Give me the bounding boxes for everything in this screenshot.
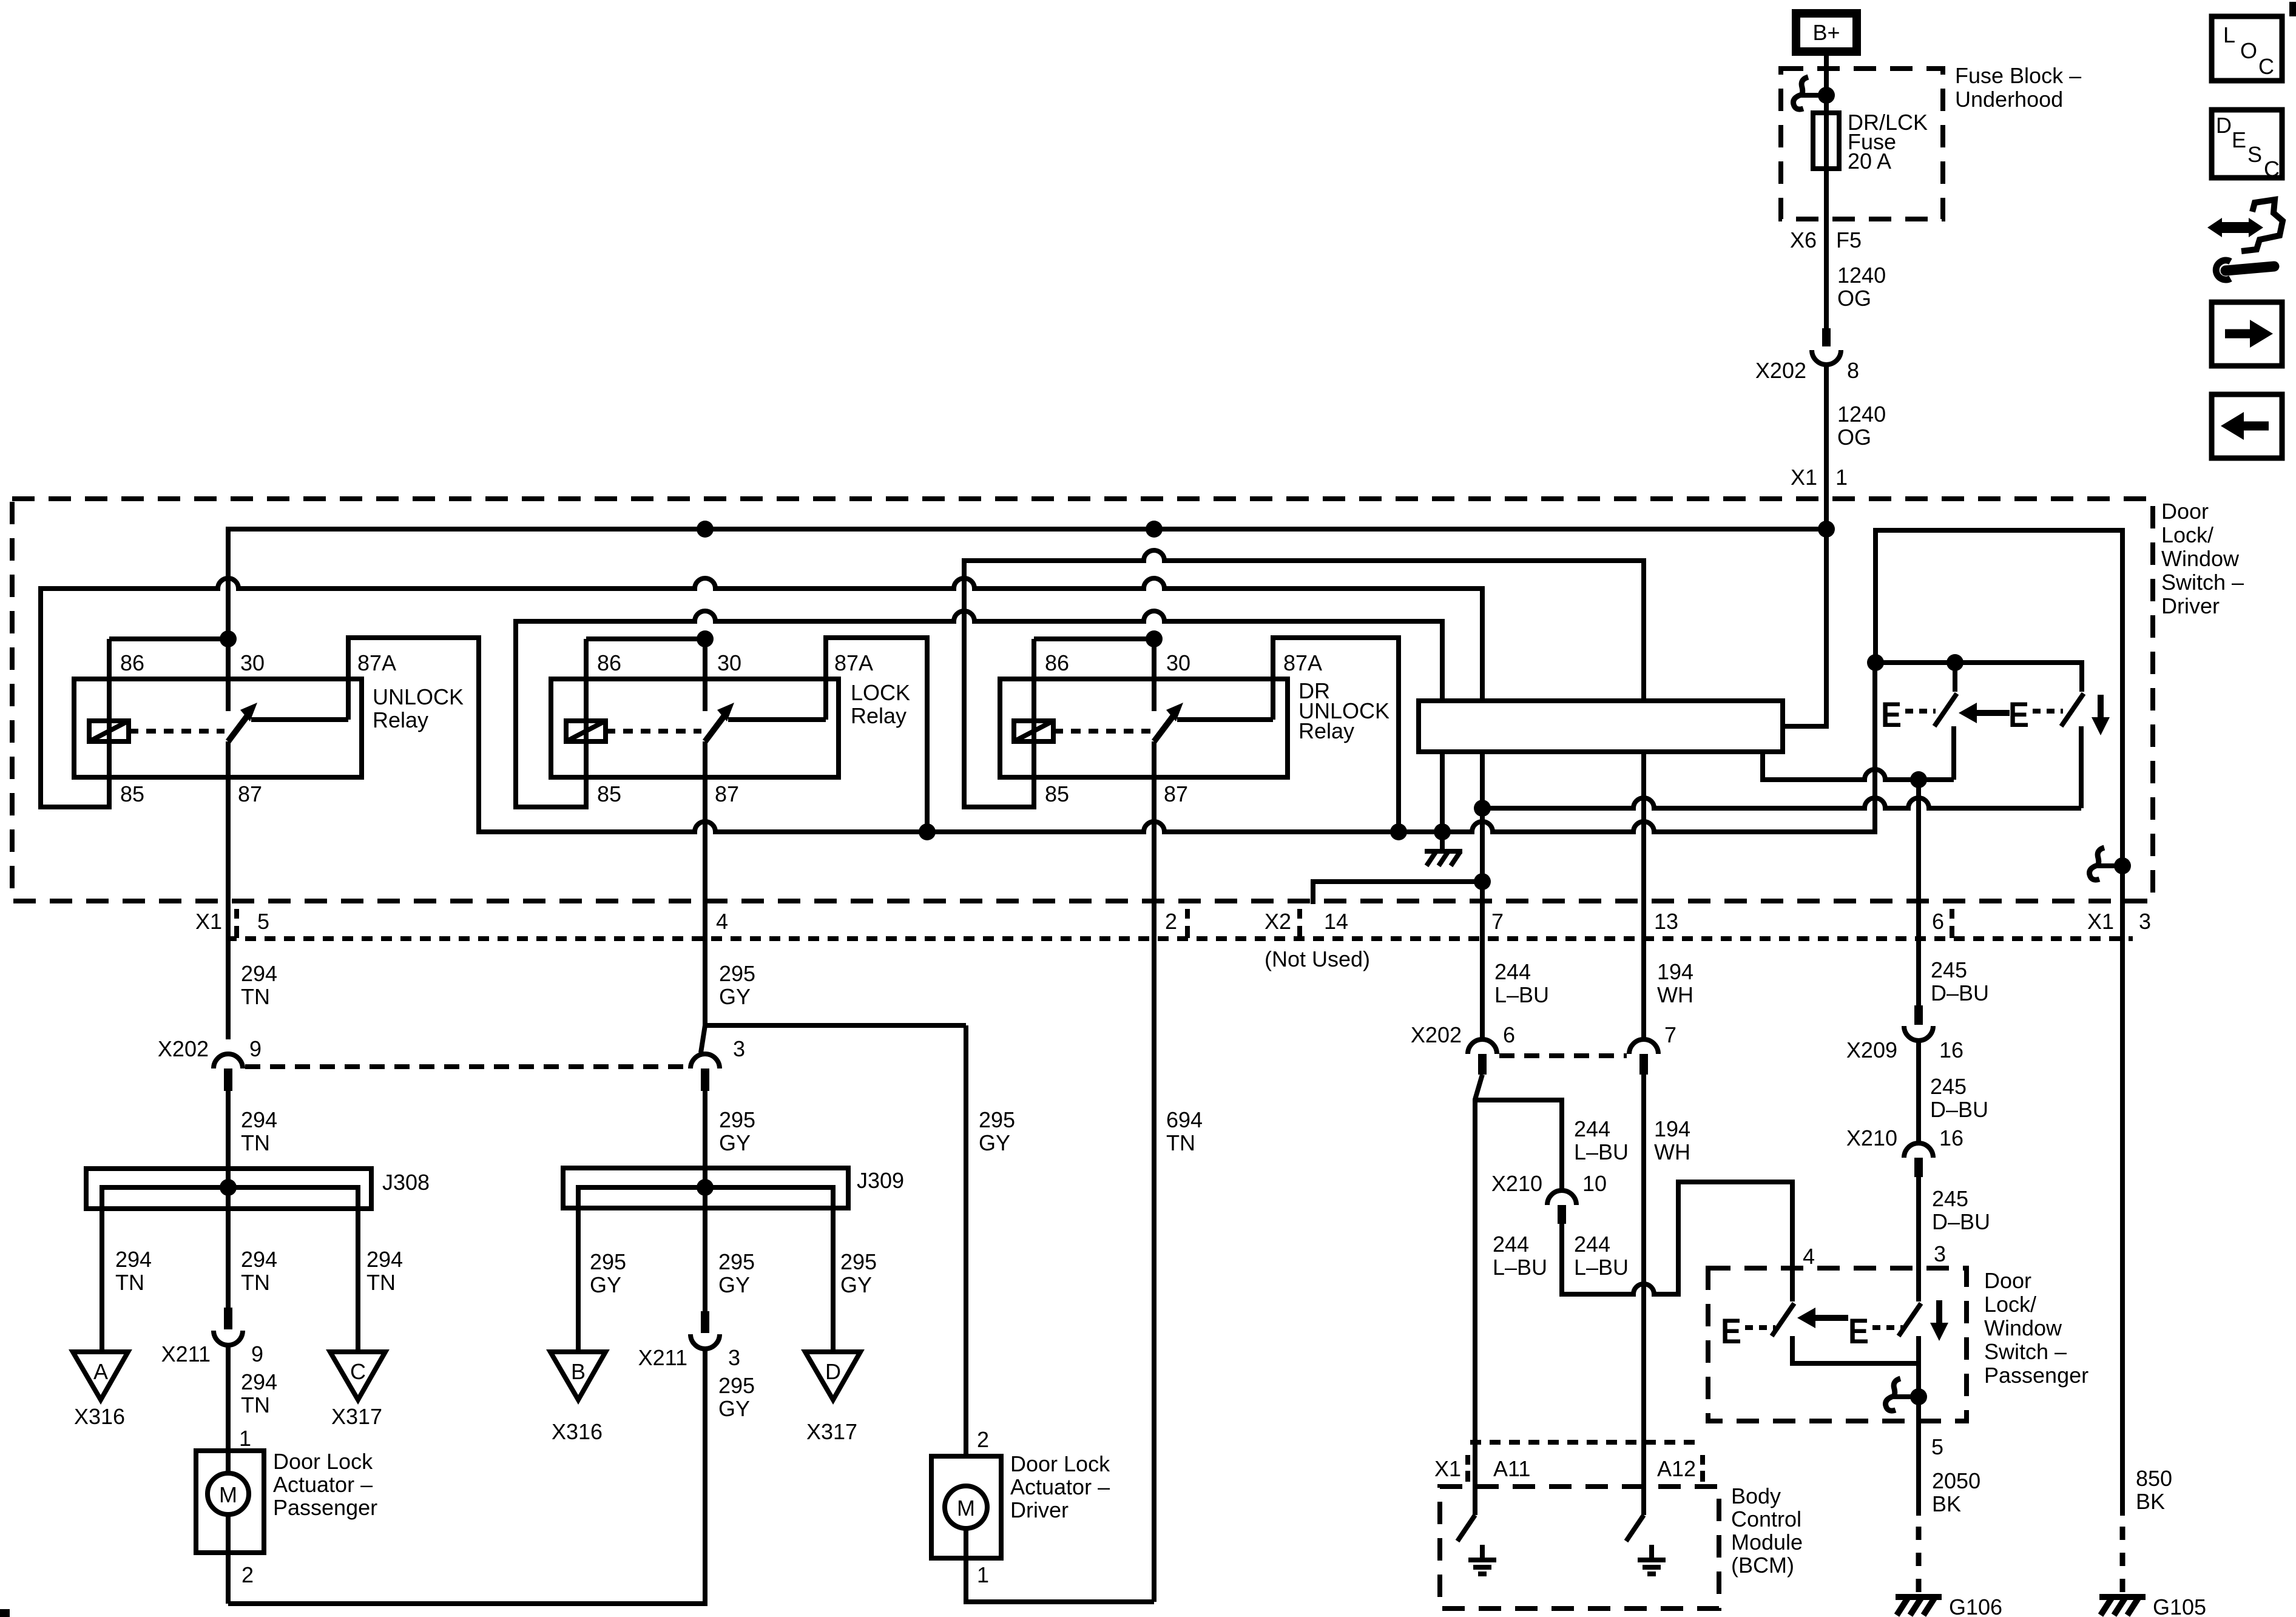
label DR/LCK Fuse 20 A <box>1848 110 1928 174</box>
connector X202 pin 8 <box>1812 328 1841 365</box>
svg-text:Lock/: Lock/ <box>2161 522 2213 547</box>
svg-text:Relay: Relay <box>851 703 907 728</box>
svg-text:850: 850 <box>2136 1466 2172 1491</box>
label 850 BK <box>2136 1466 2172 1514</box>
icon DESC box <box>2212 110 2282 181</box>
svg-text:C: C <box>2258 54 2274 79</box>
wire block port pin13 column upper <box>1641 752 1646 1039</box>
svg-text:X1: X1 <box>195 909 222 934</box>
svg-text:14: 14 <box>1324 909 1348 934</box>
relay2 coil <box>566 721 606 741</box>
label fuse block underhood <box>1955 63 2081 112</box>
svg-text:295: 295 <box>718 1249 755 1274</box>
door lock/window switch driver dashed box <box>12 499 2153 901</box>
relay2 bracket 86-30 <box>586 636 705 641</box>
label X202 6 <box>1411 1022 1515 1047</box>
svg-text:C: C <box>2264 157 2280 181</box>
relay2 box <box>551 679 839 777</box>
svg-text:L: L <box>2223 22 2235 47</box>
svg-text:D: D <box>2216 113 2232 138</box>
label X209 16 <box>1846 1038 1963 1062</box>
svg-text:BK: BK <box>2136 1489 2165 1514</box>
svg-text:4: 4 <box>716 909 728 934</box>
label 295 GY pin4 <box>719 961 755 1009</box>
svg-text:194: 194 <box>1654 1116 1690 1141</box>
svg-text:Lock/: Lock/ <box>1984 1292 2036 1317</box>
svg-text:9: 9 <box>249 1036 262 1061</box>
relay2 87 contact wire <box>728 717 826 722</box>
svg-text:E: E <box>1848 1312 1869 1351</box>
svg-text:Door: Door <box>1984 1268 2031 1293</box>
svg-text:1: 1 <box>239 1426 251 1451</box>
svg-text:Switch –: Switch – <box>1984 1339 2067 1364</box>
driver lock switch blade left <box>1953 663 1957 692</box>
relay1 coil link dashes <box>129 729 225 734</box>
svg-text:G106: G106 <box>1949 1595 2002 1617</box>
battery terminal B+ <box>1796 13 1857 52</box>
svg-text:E: E <box>2008 695 2029 735</box>
svg-text:Passenger: Passenger <box>273 1495 377 1520</box>
svg-text:244: 244 <box>1494 959 1531 984</box>
svg-text:O: O <box>2240 38 2257 63</box>
svg-text:30: 30 <box>1166 650 1190 675</box>
svg-text:E: E <box>1881 695 1902 735</box>
triangle connector B <box>550 1352 606 1400</box>
label 244 L-BU branch upper <box>1574 1116 1629 1164</box>
svg-text:WH: WH <box>1657 982 1693 1007</box>
svg-text:9: 9 <box>251 1342 263 1366</box>
labels X1 A11 A12 <box>1434 1456 1696 1481</box>
svg-text:E: E <box>2232 127 2246 152</box>
svg-text:F5: F5 <box>1836 228 1862 252</box>
relay DR UNLOCK Relay (relay 3) <box>1000 630 1389 806</box>
wire 294 TN to J308 <box>226 1091 231 1308</box>
svg-text:D–BU: D–BU <box>1932 1209 1990 1234</box>
relay LOCK Relay (relay 2) <box>551 630 910 806</box>
svg-text:UNLOCK: UNLOCK <box>373 684 464 709</box>
wire relay3 87A drop <box>1273 638 1399 832</box>
driver lock switch block rectangle <box>1419 701 1783 752</box>
svg-text:X317: X317 <box>806 1419 857 1444</box>
BCM ground A11 <box>1468 1545 1496 1574</box>
fuse block underhood dashed box <box>1781 69 1943 219</box>
svg-text:TN: TN <box>241 1393 270 1417</box>
svg-text:Door Lock: Door Lock <box>273 1449 373 1474</box>
wire X210-10 down and over to passenger pin4 <box>1562 1182 1792 1301</box>
svg-text:294: 294 <box>241 1369 277 1394</box>
svg-text:GY: GY <box>719 1130 751 1155</box>
splice J308 <box>86 1169 371 1352</box>
svg-text:3: 3 <box>733 1036 745 1061</box>
svg-text:10: 10 <box>1582 1171 1607 1196</box>
node driver switch left <box>1867 654 1884 671</box>
svg-text:4: 4 <box>1803 1244 1815 1269</box>
svg-text:A: A <box>93 1359 108 1384</box>
wire 244 L-BU jog down to BCM A11 <box>1475 1075 1482 1515</box>
relay3 87 contact wire <box>1177 717 1273 722</box>
pin bracket X2-14 <box>1297 909 1302 938</box>
label door lock/window switch driver <box>2161 499 2244 618</box>
svg-text:TN: TN <box>366 1270 396 1295</box>
label 1240 OG lower <box>1837 402 1886 450</box>
svg-text:X209: X209 <box>1846 1038 1897 1062</box>
driver unlock switch blade right <box>2061 694 2084 726</box>
label 694 TN <box>1166 1107 1203 1155</box>
relay3 box <box>1000 679 1288 777</box>
wire driver switch top rail <box>1876 663 2082 692</box>
svg-text:87: 87 <box>715 781 739 806</box>
driver unlock switch right terminal <box>2079 726 2084 808</box>
svg-text:295: 295 <box>719 1107 755 1132</box>
node 87A bus ground tap <box>1434 823 1451 840</box>
clamp symbol at fuse block feed <box>1794 77 1835 109</box>
label 245 D-BU lower <box>1932 1186 1990 1234</box>
svg-text:87: 87 <box>238 781 262 806</box>
svg-text:X211: X211 <box>161 1342 211 1366</box>
body control module dashed box <box>1440 1487 1719 1609</box>
passenger left terminal <box>1792 1336 1919 1363</box>
passenger switch down arrow <box>1930 1300 1948 1341</box>
triangle connector A <box>73 1352 128 1400</box>
svg-text:85: 85 <box>120 781 144 806</box>
connector X202 pin 3 <box>690 1025 720 1091</box>
svg-text:3: 3 <box>1934 1241 1946 1266</box>
relay2 coil link dashes <box>606 729 701 734</box>
label X6 F5 <box>1790 228 1862 252</box>
svg-text:GY: GY <box>718 1272 750 1297</box>
svg-text:Door: Door <box>2161 499 2209 524</box>
label X202 9 <box>158 1036 262 1061</box>
svg-text:GY: GY <box>718 1396 750 1421</box>
relay3 bracket 86-30 <box>1034 636 1154 641</box>
ground G105 <box>2099 1597 2146 1615</box>
label door lock actuator driver <box>1010 1451 1110 1522</box>
svg-text:1240: 1240 <box>1837 263 1886 288</box>
relay1 86 leg <box>107 639 112 741</box>
relay3 switch arm <box>1154 712 1176 741</box>
wire 2050 BK dashed drop <box>1916 1527 1922 1597</box>
wire relay1 87A bus to switch <box>348 638 1875 832</box>
connector X202 pin 6 <box>1468 1039 1497 1075</box>
wire pin4 295 GY down <box>705 777 966 1025</box>
label 244 L-BU pin7 <box>1494 959 1549 1007</box>
relay2 30 stub <box>703 639 707 711</box>
svg-text:M: M <box>957 1496 975 1521</box>
labels 294 TN triple <box>115 1247 403 1295</box>
label 245 D-BU mid <box>1930 1074 1988 1122</box>
page edge artifact <box>2289 2 2296 16</box>
splice J309 <box>563 1168 848 1352</box>
node relay3 30 <box>1146 630 1163 647</box>
label door lock actuator passenger <box>273 1449 377 1520</box>
svg-text:GY: GY <box>590 1272 621 1297</box>
relay1 box <box>74 679 362 777</box>
svg-text:GY: GY <box>840 1272 872 1297</box>
door lock actuator driver <box>931 1456 1154 1602</box>
wire pin6 245 D-BU down <box>1916 780 1921 1005</box>
svg-text:Underhood: Underhood <box>1955 87 2063 112</box>
wire X202-8 down into switch box <box>1824 363 1829 529</box>
wire relay2 87A drop <box>826 638 927 832</box>
wire 295 GY branch to actuator driver <box>964 1025 968 1456</box>
svg-text:Switch –: Switch – <box>2161 570 2244 595</box>
clip at passenger pin 5 <box>1886 1379 1927 1411</box>
relay3 87 leg <box>1152 741 1156 777</box>
wire actuator passenger to J309 column <box>228 1349 705 1604</box>
label X202 8 <box>1755 358 1859 383</box>
svg-text:M: M <box>219 1482 237 1507</box>
wire fuse to X202-8 <box>1824 169 1829 328</box>
svg-text:OG: OG <box>1837 425 1871 450</box>
svg-text:87A: 87A <box>357 650 396 675</box>
svg-text:Driver: Driver <box>1010 1497 1069 1522</box>
svg-text:L–BU: L–BU <box>1494 982 1549 1007</box>
wire B+ down to fuse <box>1824 56 1829 113</box>
fuse DR/LCK 20A <box>1813 113 1839 169</box>
node pin7 X2-14 line <box>1474 873 1491 890</box>
svg-text:OG: OG <box>1837 286 1871 311</box>
relay3 86 leg <box>1032 639 1036 741</box>
svg-text:Body: Body <box>1731 1484 1781 1508</box>
driver window switch outline <box>1876 530 2122 866</box>
svg-text:Relay: Relay <box>373 707 428 732</box>
label 295 GY mid <box>719 1107 755 1155</box>
svg-text:GY: GY <box>979 1130 1010 1155</box>
svg-text:3: 3 <box>2139 909 2151 934</box>
ground G106 <box>1896 1597 1942 1615</box>
relay2 87 leg <box>703 741 707 777</box>
svg-text:Passenger: Passenger <box>1984 1363 2088 1388</box>
wire feed bus L1 <box>228 529 1826 639</box>
relay2 switch arm <box>705 712 727 741</box>
icon wiring navigation (arrow and wrench) <box>2207 200 2283 280</box>
svg-text:1240: 1240 <box>1837 402 1886 427</box>
label 194 WH pin13 <box>1657 959 1693 1007</box>
svg-text:X210: X210 <box>1491 1171 1542 1196</box>
svg-text:D: D <box>825 1359 841 1384</box>
svg-text:5: 5 <box>1931 1434 1943 1459</box>
svg-text:TN: TN <box>241 1270 270 1295</box>
node pin7 switch line <box>1474 800 1491 817</box>
dashed link X202 6-7 <box>1499 1053 1627 1058</box>
svg-text:6: 6 <box>1503 1022 1515 1047</box>
node 87A bus relay2 <box>919 823 936 840</box>
svg-text:87: 87 <box>1164 781 1188 806</box>
dashed link X202 9-3 <box>245 1064 689 1069</box>
svg-text:Actuator –: Actuator – <box>1010 1474 1110 1499</box>
node L1-relay3 <box>1146 521 1163 538</box>
label 245 D-BU pin6 <box>1931 957 1989 1005</box>
svg-text:295: 295 <box>840 1249 877 1274</box>
svg-text:86: 86 <box>597 650 621 675</box>
svg-text:D–BU: D–BU <box>1930 1097 1988 1122</box>
svg-text:Window: Window <box>1984 1315 2062 1340</box>
connector X211 pin 9 <box>214 1308 243 1345</box>
wire pin13 194 WH down <box>1641 1075 1646 1515</box>
wire pin2 694 TN column <box>1152 777 1156 1602</box>
svg-text:D–BU: D–BU <box>1931 981 1989 1005</box>
BCM connector dotted line <box>1470 1440 1703 1445</box>
connector X202 pin 9 <box>214 1054 243 1091</box>
svg-text:86: 86 <box>1045 650 1069 675</box>
svg-text:Door Lock: Door Lock <box>1010 1451 1110 1476</box>
wire X1-3 850 BK down <box>2120 866 2125 1516</box>
svg-text:3: 3 <box>728 1345 740 1370</box>
svg-text:20 A: 20 A <box>1848 149 1891 174</box>
svg-text:A12: A12 <box>1657 1456 1696 1481</box>
svg-text:X6: X6 <box>1790 228 1817 252</box>
relay1 coil <box>89 721 129 741</box>
label 294 TN pin5 <box>241 961 277 1009</box>
svg-text:2: 2 <box>241 1562 254 1587</box>
svg-text:B: B <box>571 1359 586 1384</box>
wire block port to 87A bus <box>1440 752 1445 832</box>
driver switch left arrow <box>1959 703 2010 723</box>
svg-text:294: 294 <box>241 1247 277 1272</box>
svg-text:X1: X1 <box>1434 1456 1461 1481</box>
svg-text:16: 16 <box>1939 1038 1963 1062</box>
svg-text:2: 2 <box>977 1427 989 1452</box>
svg-text:X2: X2 <box>1264 909 1291 934</box>
pin labels row <box>195 909 2151 934</box>
connector row dotted line X1 <box>226 936 2133 941</box>
svg-text:L–BU: L–BU <box>1493 1255 1547 1280</box>
svg-text:694: 694 <box>1166 1107 1203 1132</box>
svg-text:WH: WH <box>1654 1139 1690 1164</box>
svg-text:7: 7 <box>1664 1022 1676 1047</box>
label X1 1 <box>1791 465 1848 490</box>
svg-text:TN: TN <box>115 1270 144 1295</box>
svg-text:(Not Used): (Not Used) <box>1264 947 1370 971</box>
label 1240 OG <box>1837 263 1886 311</box>
node upper switch line pin6 <box>1910 771 1927 788</box>
passenger unlock switch blade right <box>1899 1303 1921 1336</box>
svg-text:C: C <box>350 1359 366 1384</box>
relay1 87 contact wire <box>251 717 348 722</box>
svg-text:BK: BK <box>1932 1491 1961 1516</box>
connector X210 pin 10 <box>1547 1190 1576 1224</box>
svg-text:LOCK: LOCK <box>851 680 910 705</box>
wire 295 GY to J309 <box>703 1091 707 1311</box>
svg-text:X211: X211 <box>638 1345 687 1370</box>
label X210 10 <box>1491 1171 1607 1196</box>
svg-text:B+: B+ <box>1812 20 1840 45</box>
labels 295 GY triple <box>590 1249 877 1297</box>
wire relay1 coil return 85 to pin7 drop <box>41 578 1482 807</box>
svg-text:Fuse Block –: Fuse Block – <box>1955 63 2081 88</box>
svg-text:194: 194 <box>1657 959 1693 984</box>
driver lock switch left terminal <box>1951 726 1956 780</box>
pin bracket 6 <box>1950 909 1954 938</box>
svg-text:X1: X1 <box>1791 465 1817 490</box>
wire block port to upper switch line <box>1763 752 1954 780</box>
relay UNLOCK Relay (relay 1) <box>74 630 464 806</box>
pin bracket X1-A11 <box>1465 1455 1470 1482</box>
relay3 coil link dashes <box>1053 729 1150 734</box>
passenger lock switch blade left <box>1772 1303 1794 1336</box>
svg-text:1: 1 <box>977 1562 989 1587</box>
node relay2 30 <box>697 630 714 647</box>
wire relay2 coil return 85 <box>516 611 1442 807</box>
BCM switch A11 <box>1457 1515 1475 1541</box>
wire block port pin7 column upper <box>1480 752 1485 1039</box>
svg-text:85: 85 <box>597 781 621 806</box>
icon previous arrow box <box>2212 394 2282 458</box>
relay1 30 stub <box>226 639 231 711</box>
wire X209 to X210 <box>1916 1041 1921 1143</box>
relay2 86 leg <box>584 639 589 741</box>
svg-text:TN: TN <box>241 984 270 1009</box>
pin bracket A12 <box>1700 1455 1705 1482</box>
BCM ground A12 <box>1638 1545 1666 1574</box>
door lock actuator passenger <box>196 1451 264 1604</box>
svg-text:Module: Module <box>1731 1530 1803 1555</box>
svg-text:J309: J309 <box>857 1168 904 1193</box>
svg-text:85: 85 <box>1045 781 1069 806</box>
clip at X1-3 <box>2090 848 2131 880</box>
page edge artifact bottom left <box>0 1609 10 1617</box>
svg-text:294: 294 <box>241 1107 277 1132</box>
svg-text:294: 294 <box>241 961 277 986</box>
svg-text:Actuator –: Actuator – <box>273 1472 373 1497</box>
svg-text:X316: X316 <box>74 1404 125 1429</box>
node 87A bus relay3 <box>1390 823 1407 840</box>
svg-text:245: 245 <box>1930 1074 1967 1099</box>
wire 850 BK dashed drop <box>2120 1527 2125 1597</box>
label body control module <box>1731 1484 1803 1578</box>
connector X210 pin 16 <box>1904 1143 1933 1177</box>
pin bracket 2 <box>1185 909 1190 938</box>
BCM switch A12 <box>1626 1515 1644 1541</box>
svg-text:16: 16 <box>1939 1126 1963 1150</box>
svg-text:5: 5 <box>257 909 269 934</box>
wire relay3 coil return 85 <box>964 550 1644 807</box>
svg-text:6: 6 <box>1932 909 1944 934</box>
svg-text:X202: X202 <box>158 1036 209 1061</box>
wire feed down to switch block <box>1783 529 1826 726</box>
svg-text:87A: 87A <box>1283 650 1322 675</box>
wire X2-14 not used <box>1313 882 1482 904</box>
connector X209 pin 16 <box>1904 1005 1933 1041</box>
connector X202 pin 7 <box>1629 1039 1658 1075</box>
svg-text:87A: 87A <box>834 650 873 675</box>
labels 244 L-BU lower pair <box>1493 1232 1629 1280</box>
svg-text:294: 294 <box>115 1247 152 1272</box>
svg-text:Driver: Driver <box>2161 593 2220 618</box>
label X210 16 <box>1846 1126 1963 1150</box>
svg-text:Window: Window <box>2161 546 2240 571</box>
svg-text:244: 244 <box>1574 1232 1610 1257</box>
svg-text:S: S <box>2247 142 2262 167</box>
connector X211 pin 3 <box>690 1311 720 1349</box>
svg-text:(BCM): (BCM) <box>1731 1553 1794 1578</box>
relay1 87 leg <box>226 741 231 777</box>
wire X211-9 down <box>226 1345 231 1473</box>
pin bracket X1-5 <box>234 909 239 938</box>
svg-text:2: 2 <box>1165 909 1177 934</box>
relay1 switch arm <box>228 712 250 741</box>
svg-text:1: 1 <box>1835 465 1848 490</box>
svg-text:X317: X317 <box>331 1404 382 1429</box>
svg-text:8: 8 <box>1847 358 1859 383</box>
svg-text:TN: TN <box>1166 1130 1195 1155</box>
relay1 bracket 86-30 <box>109 636 228 641</box>
wire lower switch line to pin7 <box>1482 798 2081 808</box>
svg-text:Relay: Relay <box>1298 718 1354 743</box>
triangle connector D <box>805 1352 860 1400</box>
svg-text:J308: J308 <box>382 1170 430 1195</box>
svg-text:X316: X316 <box>552 1419 603 1444</box>
